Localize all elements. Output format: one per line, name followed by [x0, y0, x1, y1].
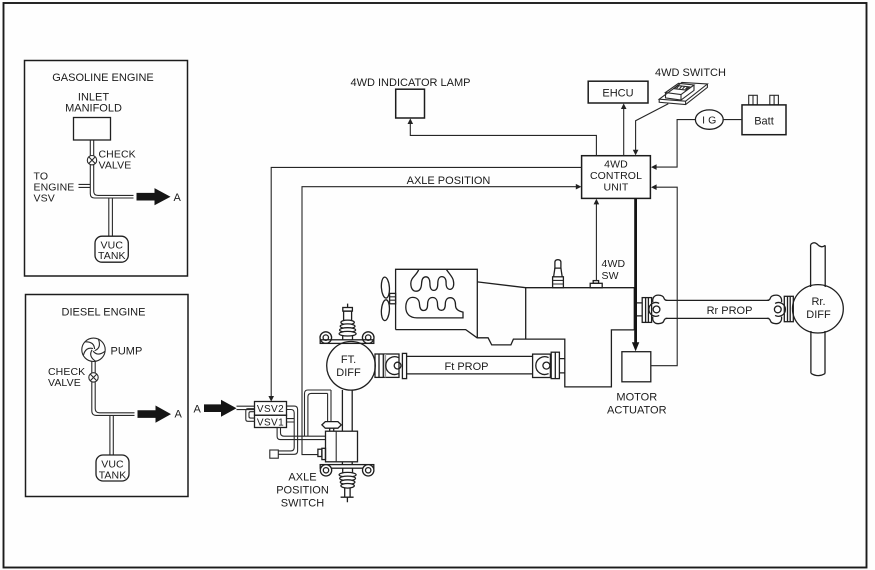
lower stem — [345, 488, 350, 497]
svg-text:EHCU: EHCU — [602, 88, 633, 100]
4WD switch icon — [659, 82, 707, 104]
svg-text:A: A — [194, 404, 202, 416]
svg-text:I G: I G — [702, 114, 716, 126]
wire 4WD SW connector to control unit — [595, 202, 597, 280]
VUC tank (diesel) — [96, 455, 129, 481]
VSV2 valve box — [255, 402, 287, 416]
wire control unit to VSV2 — [271, 167, 581, 397]
lower boot stem from bar — [343, 468, 353, 472]
svg-text:Rr.: Rr. — [811, 296, 825, 308]
Rr prop left u-joint lobes — [653, 295, 668, 302]
rear axle upper tube — [811, 245, 826, 287]
lower stem tick — [341, 497, 354, 502]
wire IG to control unit — [654, 120, 695, 168]
svg-text:ACTUATOR: ACTUATOR — [607, 405, 667, 417]
front axle upper cylinder — [344, 311, 352, 320]
lower bar — [320, 465, 374, 469]
svg-text:4WD INDICATOR LAMP: 4WD INDICATOR LAMP — [351, 77, 471, 89]
wire IG to Batt — [723, 119, 742, 121]
Rr DIFF ellipse — [793, 285, 844, 333]
svg-text:4WD: 4WD — [604, 158, 628, 170]
transmission top outline — [477, 282, 634, 330]
svg-text:Batt: Batt — [754, 116, 774, 128]
svg-text:AXLE POSITION: AXLE POSITION — [407, 175, 491, 187]
motor actuator box — [622, 352, 651, 382]
svg-text:VSV: VSV — [34, 193, 55, 205]
VSV1 valve box — [255, 415, 287, 427]
shaft FT.DIFF to switch body — [342, 390, 352, 431]
Ft prop left joint bar — [402, 353, 406, 378]
upper boot stem to bar — [343, 336, 353, 340]
thick wire control unit to motor actuator — [634, 198, 637, 343]
fan hub — [390, 293, 396, 303]
wire axle position switch to control unit — [302, 187, 578, 455]
svg-text:4WD SWITCH: 4WD SWITCH — [655, 67, 726, 79]
4WD SW connector on case — [593, 281, 598, 284]
axle position switch body — [326, 431, 358, 462]
pipe pump to check valve (diesel) — [92, 362, 95, 373]
hose VSV2 right down to vacuum box — [278, 406, 297, 454]
svg-text:VSV1: VSV1 — [257, 417, 284, 428]
svg-text:MOTOR: MOTOR — [616, 391, 657, 403]
arrow A feed — [204, 400, 237, 417]
check valve (diesel) — [89, 373, 98, 382]
lower boot — [339, 472, 356, 488]
svg-text:4WD: 4WD — [602, 258, 626, 270]
Ft prop right u-joint yoke — [533, 354, 551, 377]
rear axle lower tube — [811, 331, 825, 374]
arrow A (gasoline) — [137, 188, 171, 205]
VUC tank (gasoline) — [95, 236, 128, 262]
svg-text:DIESEL ENGINE: DIESEL ENGINE — [62, 307, 146, 319]
svg-text:VALVE: VALVE — [48, 377, 81, 389]
spark plug sensor cap — [555, 260, 561, 268]
engine bottom / sump / case underside — [396, 330, 635, 387]
battery terminals — [749, 95, 758, 105]
FT.DIFF circle — [327, 342, 376, 391]
engine squiggle bottom — [406, 297, 463, 318]
hose A to VSV2 — [237, 406, 255, 409]
vacuum diaphragm on switch — [322, 422, 341, 429]
Rr prop right u-joint lobes — [767, 295, 782, 302]
rear axle tube top break — [811, 243, 826, 247]
EHCU box — [588, 81, 648, 103]
upper bar left ring — [320, 332, 332, 344]
diesel engine box — [26, 295, 189, 497]
switch connector — [318, 449, 322, 456]
Ft prop tube — [407, 355, 533, 357]
engine fan blade upper — [381, 277, 390, 299]
svg-text:MANIFOLD: MANIFOLD — [65, 103, 122, 115]
Rr diff flange discs — [784, 296, 793, 321]
vacuum reservoir box — [270, 450, 279, 458]
hose VSV1 bottom to switch — [277, 428, 325, 440]
stub to transfer case — [559, 359, 564, 373]
svg-text:A: A — [175, 409, 183, 421]
inlet manifold box — [74, 118, 111, 141]
front axle upper stem tick — [347, 304, 349, 308]
Rr output flange — [642, 298, 651, 323]
svg-text:TANK: TANK — [98, 250, 126, 262]
svg-text:Ft PROP: Ft PROP — [444, 361, 488, 373]
svg-text:UNIT: UNIT — [604, 181, 629, 193]
svg-text:VSV2: VSV2 — [257, 404, 284, 415]
upper bar right ring — [362, 332, 374, 344]
hose VUC tank to A (gasoline) — [109, 198, 113, 236]
Rr prop left u-joint yoke — [649, 302, 659, 316]
Ft prop left flange — [375, 354, 399, 377]
wire control unit to EHCU — [623, 107, 625, 156]
engine squiggle top — [411, 270, 454, 292]
4WD control unit box — [582, 156, 651, 199]
arrow A (diesel) — [138, 406, 172, 423]
engine fan blade lower — [381, 300, 390, 321]
IG ellipse — [695, 110, 723, 129]
svg-text:DIFF: DIFF — [806, 309, 831, 321]
svg-text:PUMP: PUMP — [111, 345, 143, 357]
Rr prop tube — [666, 299, 770, 301]
wire control unit to indicator lamp — [410, 122, 596, 156]
Rr output stubs — [636, 303, 642, 316]
hose check valve to A (gasoline) — [90, 165, 133, 198]
pipe manifold to check valve — [90, 141, 93, 156]
hose loop VSV2 left to VSV1 left — [246, 409, 255, 422]
front axle upper boot — [339, 320, 356, 336]
svg-text:GASOLINE ENGINE: GASOLINE ENGINE — [52, 72, 153, 84]
lower bar right ring — [363, 465, 374, 476]
Ft prop right flange discs — [551, 352, 559, 378]
front axle upper bar — [320, 340, 374, 344]
svg-text:Rr PROP: Rr PROP — [707, 305, 753, 317]
svg-text:SW: SW — [602, 270, 619, 282]
hose check valve to A (diesel) — [92, 382, 135, 415]
svg-text:FT.: FT. — [341, 354, 356, 366]
gasoline engine box — [25, 61, 188, 277]
engine block — [396, 269, 478, 338]
pump (diesel) — [82, 338, 105, 361]
hose channel up and over to diaphragm — [305, 390, 332, 436]
wire motor actuator to control unit — [651, 187, 677, 366]
wire 4WD switch to control unit — [636, 104, 669, 152]
svg-text:CONTROL: CONTROL — [590, 170, 642, 182]
rear axle tube bottom cap — [811, 373, 825, 375]
svg-text:VALVE: VALVE — [99, 160, 132, 172]
svg-text:A: A — [174, 192, 182, 204]
Rr prop right u-joint yoke — [775, 302, 785, 316]
svg-text:TANK: TANK — [99, 469, 127, 481]
svg-text:SWITCH: SWITCH — [281, 498, 324, 510]
spark plug sensor neck — [554, 268, 563, 277]
bell housing boundary — [525, 288, 527, 339]
lower bar left ring — [320, 465, 331, 476]
hose VUC tank to A (diesel) — [110, 415, 113, 455]
check valve (gasoline) — [87, 156, 96, 165]
svg-text:POSITION: POSITION — [276, 485, 329, 497]
hose VSV1 right to channel — [287, 419, 295, 422]
svg-text:DIFF: DIFF — [336, 367, 361, 379]
Ft prop left u-joint yoke — [386, 357, 399, 375]
spark plug sensor ribbed base — [553, 277, 564, 288]
4WD indicator lamp box — [396, 89, 425, 118]
battery box — [742, 105, 786, 135]
svg-text:AXLE: AXLE — [288, 472, 316, 484]
stub pipe to engine vsv — [79, 184, 91, 187]
